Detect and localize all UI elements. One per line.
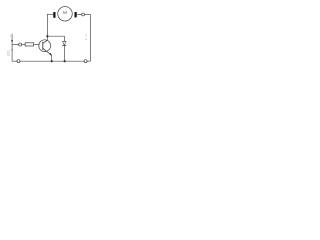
svg-text:a: a <box>85 37 87 41</box>
wire: diode branch vertical lower <box>64 46 66 62</box>
motor M1 body <box>58 7 73 21</box>
svg-text:M: M <box>63 10 67 16</box>
wire: collector node up to motor <box>46 14 48 36</box>
node: diode-rail junction dot <box>64 60 66 62</box>
wire: bottom rail left segment <box>12 60 17 62</box>
diode D1 triangle <box>63 42 67 46</box>
connector J1 circle on base chain <box>19 43 22 46</box>
connector J3 circle bottom left <box>17 60 20 63</box>
wire: emitter vertical down <box>51 55 53 61</box>
wire: connector to resistor <box>22 44 25 46</box>
node: collector junction dot <box>46 35 48 37</box>
motor M1 right brush <box>75 12 77 17</box>
diode D1 cathode bar <box>62 45 66 47</box>
node: emitter-rail junction dot <box>51 60 53 62</box>
connector J4 circle bottom right <box>84 60 87 63</box>
connector J2 circle top right <box>82 13 85 16</box>
wire: connector to right corner <box>85 14 91 16</box>
transistor Q1 (NPN) <box>39 40 52 56</box>
motor M1 left brush <box>53 12 55 18</box>
wire: bottom rail main segment <box>20 60 84 62</box>
wire: collector vertical to node <box>46 36 48 40</box>
wire: motor right brush to connector <box>77 14 82 16</box>
wire: diode branch vertical upper <box>64 36 66 41</box>
wire: collector node horizontal to diode branch <box>47 35 64 37</box>
svg-text:S2: S2 <box>7 52 11 56</box>
emitter arrow of Q1 <box>49 53 52 56</box>
wire: bottom rail right end <box>87 60 90 62</box>
wire: top horizontal into motor left brush <box>47 13 53 15</box>
wire: left input vertical bus <box>11 34 13 61</box>
svg-text:1: 1 <box>9 34 11 38</box>
wire: base chain from bus to connector <box>12 44 19 46</box>
wire: right side vertical down <box>90 15 92 62</box>
wire: resistor to transistor base <box>34 44 40 46</box>
resistor R1 <box>25 43 33 46</box>
node A: input arrow on left bus <box>11 40 13 42</box>
node B: small mark on left bus <box>11 49 13 50</box>
